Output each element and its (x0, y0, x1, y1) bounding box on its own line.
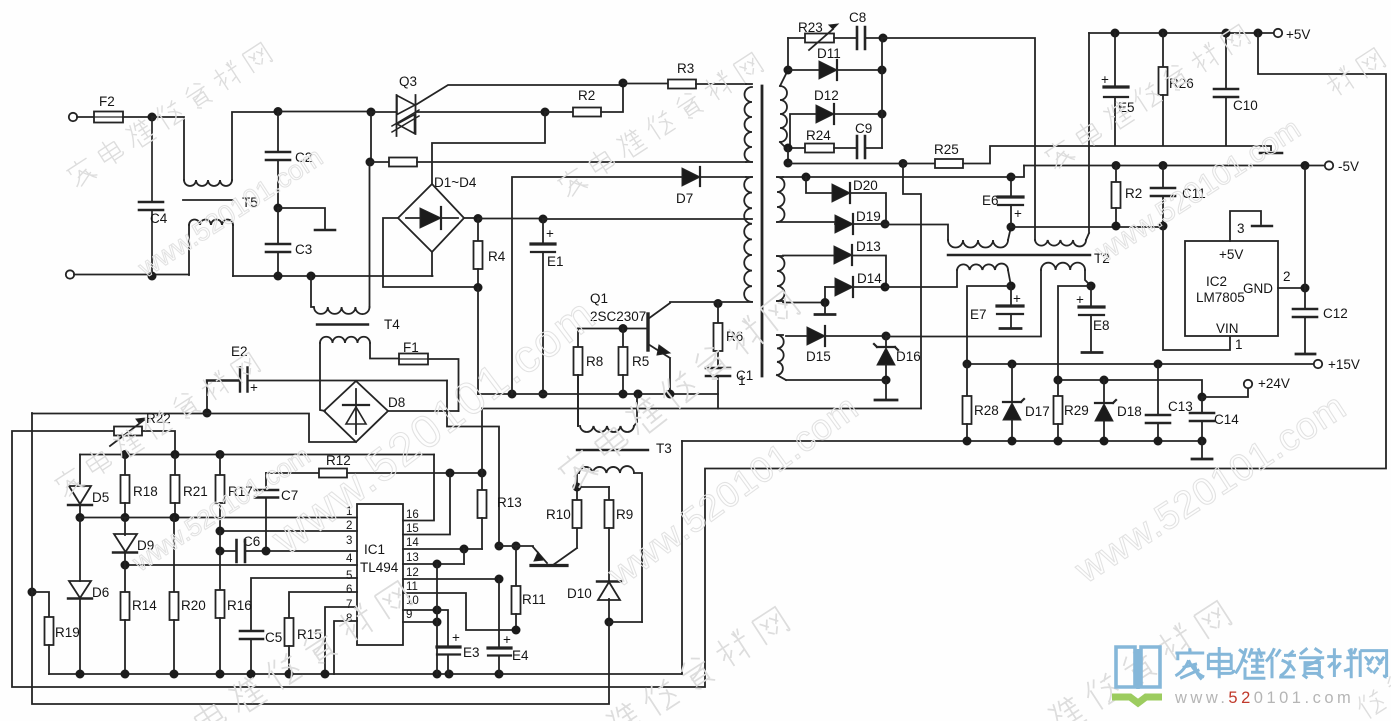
AC input terminal top (69, 113, 77, 121)
svg-text:+: + (1076, 292, 1084, 307)
svg-text:R21: R21 (183, 484, 208, 499)
bridge bottom vertex to AC2 (431, 252, 433, 276)
node C2/C3 mid (274, 204, 283, 213)
svg-text:1: 1 (1235, 337, 1243, 352)
svg-text:C3: C3 (295, 242, 312, 257)
wire AC1 node down to T4 (369, 162, 371, 307)
svg-text:D18: D18 (1117, 404, 1142, 419)
D10 feedback loop to E2 (32, 413, 609, 704)
svg-text:-5V: -5V (1338, 159, 1359, 174)
wire AC2 (74, 274, 189, 276)
wire R4 bottom to hot ground rail (477, 288, 479, 395)
svg-text:R9: R9 (616, 507, 633, 522)
svg-text:R13: R13 (497, 495, 522, 510)
svg-text:1: 1 (738, 373, 746, 388)
svg-text:Q1: Q1 (590, 291, 608, 306)
transformer T1 secondary S1 (780, 70, 788, 86)
svg-text:E6: E6 (982, 193, 999, 208)
svg-text:+5V: +5V (1286, 27, 1310, 42)
node D12 cathode (878, 110, 887, 119)
svg-text:E8: E8 (1093, 318, 1110, 333)
node R3 left (619, 79, 628, 88)
svg-text:+5V: +5V (1219, 247, 1243, 262)
svg-text:R25: R25 (934, 142, 959, 157)
svg-text:+: + (1014, 206, 1022, 221)
D14 anode return + ground (783, 287, 825, 303)
svg-text:D5: D5 (92, 490, 109, 505)
node R2 left (541, 108, 550, 117)
+5V rectifier column (787, 38, 789, 70)
node T4 top tap (307, 272, 316, 281)
+5V rail (1089, 32, 1278, 34)
node E7 top (1007, 282, 1016, 291)
node C8 right (879, 34, 888, 43)
T3 node R10/R9 (573, 483, 582, 492)
startup resistor (unlabeled) (370, 161, 389, 163)
divider rail (80, 454, 434, 456)
capacitor C3 (277, 208, 279, 276)
svg-text:3: 3 (346, 535, 352, 547)
node E8 top (1087, 282, 1096, 291)
node D15/D16 (882, 332, 891, 341)
T3 feedback winding (577, 375, 579, 426)
svg-text:3: 3 (1237, 221, 1245, 236)
svg-text:C12: C12 (1323, 306, 1348, 321)
node D10 bottom (605, 618, 614, 627)
svg-text:2: 2 (1283, 269, 1291, 284)
transistor Q2 (499, 545, 533, 547)
svg-text:R2: R2 (578, 88, 595, 103)
feedback line to D8 (32, 414, 356, 443)
svg-text:+: + (503, 632, 511, 647)
green swoosh (1112, 697, 1162, 703)
svg-text:R14: R14 (132, 598, 157, 613)
svg-text:LM7805: LM7805 (1196, 290, 1245, 305)
wire C11 node to IC2 pin1 (1163, 226, 1230, 350)
wire E7 node to +15V rail (967, 286, 1011, 364)
T1 core (761, 86, 764, 376)
svg-text:GND: GND (1243, 281, 1273, 296)
svg-text:6: 6 (346, 584, 352, 596)
hot ground of D16 (885, 380, 887, 399)
svg-text:+24V: +24V (1258, 376, 1290, 391)
-5V output line (1011, 226, 1163, 228)
svg-text:+15V: +15V (1328, 357, 1360, 372)
node R6 top (714, 299, 723, 308)
svg-text:D17: D17 (1025, 404, 1050, 419)
svg-text:R10: R10 (546, 507, 571, 522)
node Q1 emitter (666, 390, 675, 399)
node R25 left (899, 159, 908, 168)
-5V terminal (1325, 161, 1333, 169)
svg-text:R11: R11 (522, 592, 546, 607)
svg-text:R20: R20 (181, 598, 206, 613)
node C3 bottom (274, 272, 283, 281)
T1 +B tap (747, 218, 752, 220)
svg-text:16: 16 (406, 509, 419, 521)
node R4 bottom (474, 283, 483, 292)
logo hanzi (1175, 647, 1386, 679)
open book icon (1116, 647, 1160, 689)
svg-text:D14: D14 (857, 271, 882, 286)
svg-text:R4: R4 (488, 249, 506, 264)
svg-text:C5: C5 (265, 630, 282, 645)
+15V choke (885, 270, 957, 287)
svg-text:E1: E1 (547, 254, 564, 269)
D8 right vertex wire to VCC (388, 410, 459, 412)
svg-text:D8: D8 (388, 395, 405, 410)
svg-text:D13: D13 (856, 239, 881, 254)
svg-text:D6: D6 (92, 585, 109, 600)
T5 core (183, 199, 233, 201)
svg-text:5: 5 (346, 570, 352, 582)
T2 core (948, 254, 1090, 257)
IC2 pin3 stub (1230, 211, 1261, 241)
-5V choke (885, 225, 948, 241)
LOGO bottom right (1112, 647, 1387, 707)
svg-text:E4: E4 (512, 648, 529, 663)
wire +B to T1 primary (543, 218, 747, 220)
svg-text:D19: D19 (856, 209, 881, 224)
winding S2 top wire (783, 176, 1011, 178)
ground rail to secondary ground (681, 441, 683, 674)
svg-text:E2: E2 (231, 344, 248, 359)
svg-text:+: + (250, 380, 258, 395)
node Q3 left (367, 108, 376, 117)
D7 column (508, 390, 517, 399)
svg-text:14: 14 (406, 537, 419, 549)
svg-text:R29: R29 (1064, 403, 1089, 418)
IC2 LM7805 (1185, 241, 1278, 336)
svg-text:R19: R19 (55, 625, 80, 640)
svg-text:+: + (452, 630, 460, 645)
svg-text:D11: D11 (817, 46, 841, 61)
svg-text:+: + (546, 226, 554, 241)
node AC1 (148, 113, 157, 122)
node E1 bottom (539, 390, 548, 399)
Q3 output wire (416, 111, 546, 113)
wire Q3 node down-jog to bridge top (432, 112, 545, 184)
+5V chokes on T2 (1035, 240, 1086, 246)
wire T5w2 to C3 node (233, 275, 433, 277)
svg-text:D20: D20 (853, 178, 878, 193)
svg-text:C10: C10 (1233, 98, 1258, 113)
bridge left vertex wrap to negative node (383, 218, 478, 287)
capacitor C4 (139, 117, 163, 277)
Q3 gate wire to top line (416, 85, 624, 105)
T3 secondary winding (577, 473, 579, 487)
-5V rail (1024, 165, 1329, 167)
node D19/D20 (881, 220, 890, 229)
svg-text:R18: R18 (133, 484, 158, 499)
wire to R25 (788, 163, 903, 165)
svg-text:D7: D7 (676, 191, 693, 206)
bridge right vertex to +B (464, 217, 478, 219)
svg-text:R24: R24 (806, 128, 831, 143)
+15V terminal (1314, 360, 1322, 368)
node E6 bottom (1007, 223, 1016, 232)
winding line to -5V rail (1011, 166, 1024, 178)
svg-text:IC1: IC1 (364, 542, 385, 557)
right column of +5V rect (881, 38, 883, 148)
node E1 top (539, 215, 548, 224)
svg-text:E3: E3 (463, 645, 480, 660)
node D5/D6 (76, 513, 85, 522)
transformer T1 primary winding upper (746, 83, 752, 85)
node D11 anode (784, 66, 793, 75)
svg-text:13: 13 (406, 552, 419, 564)
svg-text:D15: D15 (806, 349, 831, 364)
node winding S1 bottom (784, 159, 793, 168)
hot ground rail 1 (478, 393, 718, 395)
inductor T5 winding 2 (188, 225, 190, 275)
svg-text:C9: C9 (855, 121, 872, 136)
wire T5w1 up (232, 112, 278, 180)
T3 core (577, 449, 648, 451)
svg-text:Q3: Q3 (399, 74, 417, 89)
ground stub of rail (1201, 441, 1203, 458)
capacitor C1 (706, 368, 730, 376)
fuse F2 (77, 116, 94, 118)
svg-text:7: 7 (346, 599, 352, 611)
node R5 bottom (619, 390, 628, 399)
svg-text:R8: R8 (586, 354, 603, 369)
wire C8 node to +5V choke (883, 38, 1035, 240)
chassis ground stub (278, 208, 325, 229)
transformer T1 secondary S2 (777, 176, 783, 178)
svg-text:C4: C4 (150, 211, 168, 226)
svg-text:www.520101.com: www.520101.com (261, 287, 605, 564)
svg-text:D10: D10 (567, 586, 592, 601)
svg-text:R15: R15 (297, 627, 322, 642)
svg-text:E7: E7 (970, 307, 987, 322)
node D16 bottom (882, 376, 891, 385)
node +B R4 top (474, 214, 483, 223)
svg-text:D12: D12 (814, 88, 839, 103)
IC2 pin2 wire (1278, 287, 1305, 289)
node D11 cathode (878, 66, 887, 75)
node R24 left (784, 144, 793, 153)
T4 core (317, 323, 368, 325)
capacitor C2 (266, 112, 290, 209)
node C2 top (274, 107, 283, 116)
svg-text:T3: T3 (656, 441, 672, 456)
svg-text:9: 9 (406, 609, 412, 621)
node E6 top (1007, 173, 1016, 182)
transformer T4 winding 2 (320, 337, 370, 343)
transformer T1 secondary S4 (777, 334, 783, 336)
node Q2 emitter line (495, 542, 504, 551)
svg-text:15: 15 (406, 523, 419, 535)
node D20 riser (802, 173, 811, 182)
V1 column pins 13-10-9 to ground (436, 564, 438, 674)
transformer T1 primary winding lower (746, 176, 752, 178)
svg-text:4: 4 (346, 553, 353, 565)
svg-text:D1~D4: D1~D4 (434, 175, 477, 190)
+15V rail (967, 363, 1318, 365)
svg-text:R16: R16 (227, 598, 252, 613)
svg-text:C14: C14 (1214, 412, 1239, 427)
svg-text:R28: R28 (974, 403, 999, 418)
AC input terminal bottom (66, 270, 74, 278)
svg-text:12: 12 (406, 567, 419, 579)
svg-text:R3: R3 (677, 61, 694, 76)
inductor T5 winding 1 (184, 180, 232, 186)
wire AC1 to T5 (152, 117, 184, 180)
svg-text:11: 11 (406, 581, 418, 593)
node startup resistor (366, 158, 375, 167)
+24V rail (1058, 380, 1202, 397)
svg-text:C8: C8 (849, 10, 866, 25)
svg-text:R5: R5 (632, 354, 649, 369)
node C4 bottom (148, 272, 157, 281)
jog R25 node to +B rail (903, 164, 921, 409)
IC1 TL494 (357, 504, 403, 645)
TL494 ground rail (49, 673, 682, 675)
transformer T1 secondary S3 (777, 255, 783, 257)
node T3 fb right (634, 390, 643, 399)
+24V terminal (1198, 393, 1207, 402)
node D13/D14 (881, 283, 890, 292)
wire F2 to junction (123, 116, 152, 118)
wire E8 node to +24V rail (1058, 286, 1091, 380)
+5V terminal (1274, 29, 1282, 37)
svg-text:www.520101.com: www.520101.com (1174, 689, 1354, 707)
svg-text:IC2: IC2 (1206, 274, 1227, 289)
S4 winding bottom return (786, 379, 886, 381)
svg-text:+: + (1101, 72, 1109, 87)
svg-text:F2: F2 (99, 94, 115, 109)
wire D15 to +24V choke (886, 270, 1041, 337)
secondary ground rail (682, 440, 1202, 442)
svg-text:D16: D16 (896, 349, 921, 364)
svg-text:R2: R2 (1125, 186, 1142, 201)
svg-text:TL494: TL494 (360, 560, 399, 575)
svg-text:T4: T4 (384, 317, 400, 332)
transformer T4 winding 1 (311, 276, 313, 307)
wire to Q3 (278, 111, 371, 113)
svg-text:VIN: VIN (1216, 321, 1239, 336)
svg-text:+: + (1013, 291, 1021, 306)
+24V choke (1041, 263, 1085, 270)
node E2 left (203, 409, 212, 418)
hot ground rail 2 (+B sense) (482, 408, 921, 410)
wire AC1 down to startup resistor (370, 112, 372, 162)
